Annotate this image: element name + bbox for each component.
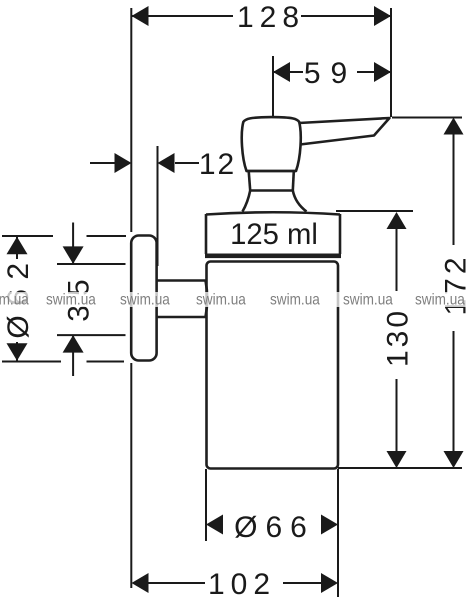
svg-text:swim.ua: swim.ua [415, 292, 465, 309]
svg-text:swim.ua: swim.ua [46, 292, 96, 309]
svg-text:128: 128 [237, 1, 305, 34]
svg-text:Ø66: Ø66 [234, 511, 315, 544]
svg-text:swim.ua: swim.ua [270, 292, 320, 309]
svg-text:12: 12 [199, 148, 236, 181]
svg-text:swim.ua: swim.ua [343, 292, 393, 309]
svg-text:swim.ua: swim.ua [120, 292, 170, 309]
svg-text:swim.ua: swim.ua [196, 292, 246, 309]
svg-text:swim.ua: swim.ua [0, 292, 29, 309]
svg-text:125 ml: 125 ml [230, 218, 318, 251]
svg-text:59: 59 [304, 57, 357, 90]
svg-text:130: 130 [382, 308, 415, 367]
svg-text:102: 102 [208, 568, 276, 600]
